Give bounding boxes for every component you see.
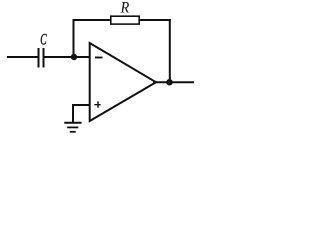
wire: input lead left of C xyxy=(7,56,38,58)
wire: non-inverting input horizontal xyxy=(72,104,90,106)
capacitor C (left plate) xyxy=(38,48,40,68)
capacitor C (right plate) xyxy=(43,48,45,68)
resistor R (box) xyxy=(111,16,139,24)
wire: top feedback right segment from R xyxy=(139,19,171,21)
pin label: inverting input minus sign xyxy=(95,57,103,59)
svg-text:R: R xyxy=(120,0,130,16)
wire: top feedback left segment to R xyxy=(73,19,112,21)
ground (top bar) xyxy=(64,122,81,124)
wire: right feedback vertical down to output node xyxy=(169,19,171,82)
wire: non-inverting input vertical down to ground xyxy=(72,104,74,123)
node B: output junction dot xyxy=(166,79,172,85)
wire: left feedback vertical (node A up to R) xyxy=(73,19,75,57)
ground (bottom bar) xyxy=(70,131,76,133)
pin label: non-inverting input plus sign xyxy=(94,101,100,108)
svg-text:C: C xyxy=(40,32,47,49)
node A: junction dot at inverting input xyxy=(71,54,77,60)
label C xyxy=(40,32,47,49)
label R xyxy=(120,0,130,16)
wire: op-amp output to node B xyxy=(153,81,194,83)
wire: C to inverting input of op-amp xyxy=(45,56,91,58)
op-amp U1 (triangle) xyxy=(90,43,156,121)
ground (middle bar) xyxy=(67,126,78,128)
